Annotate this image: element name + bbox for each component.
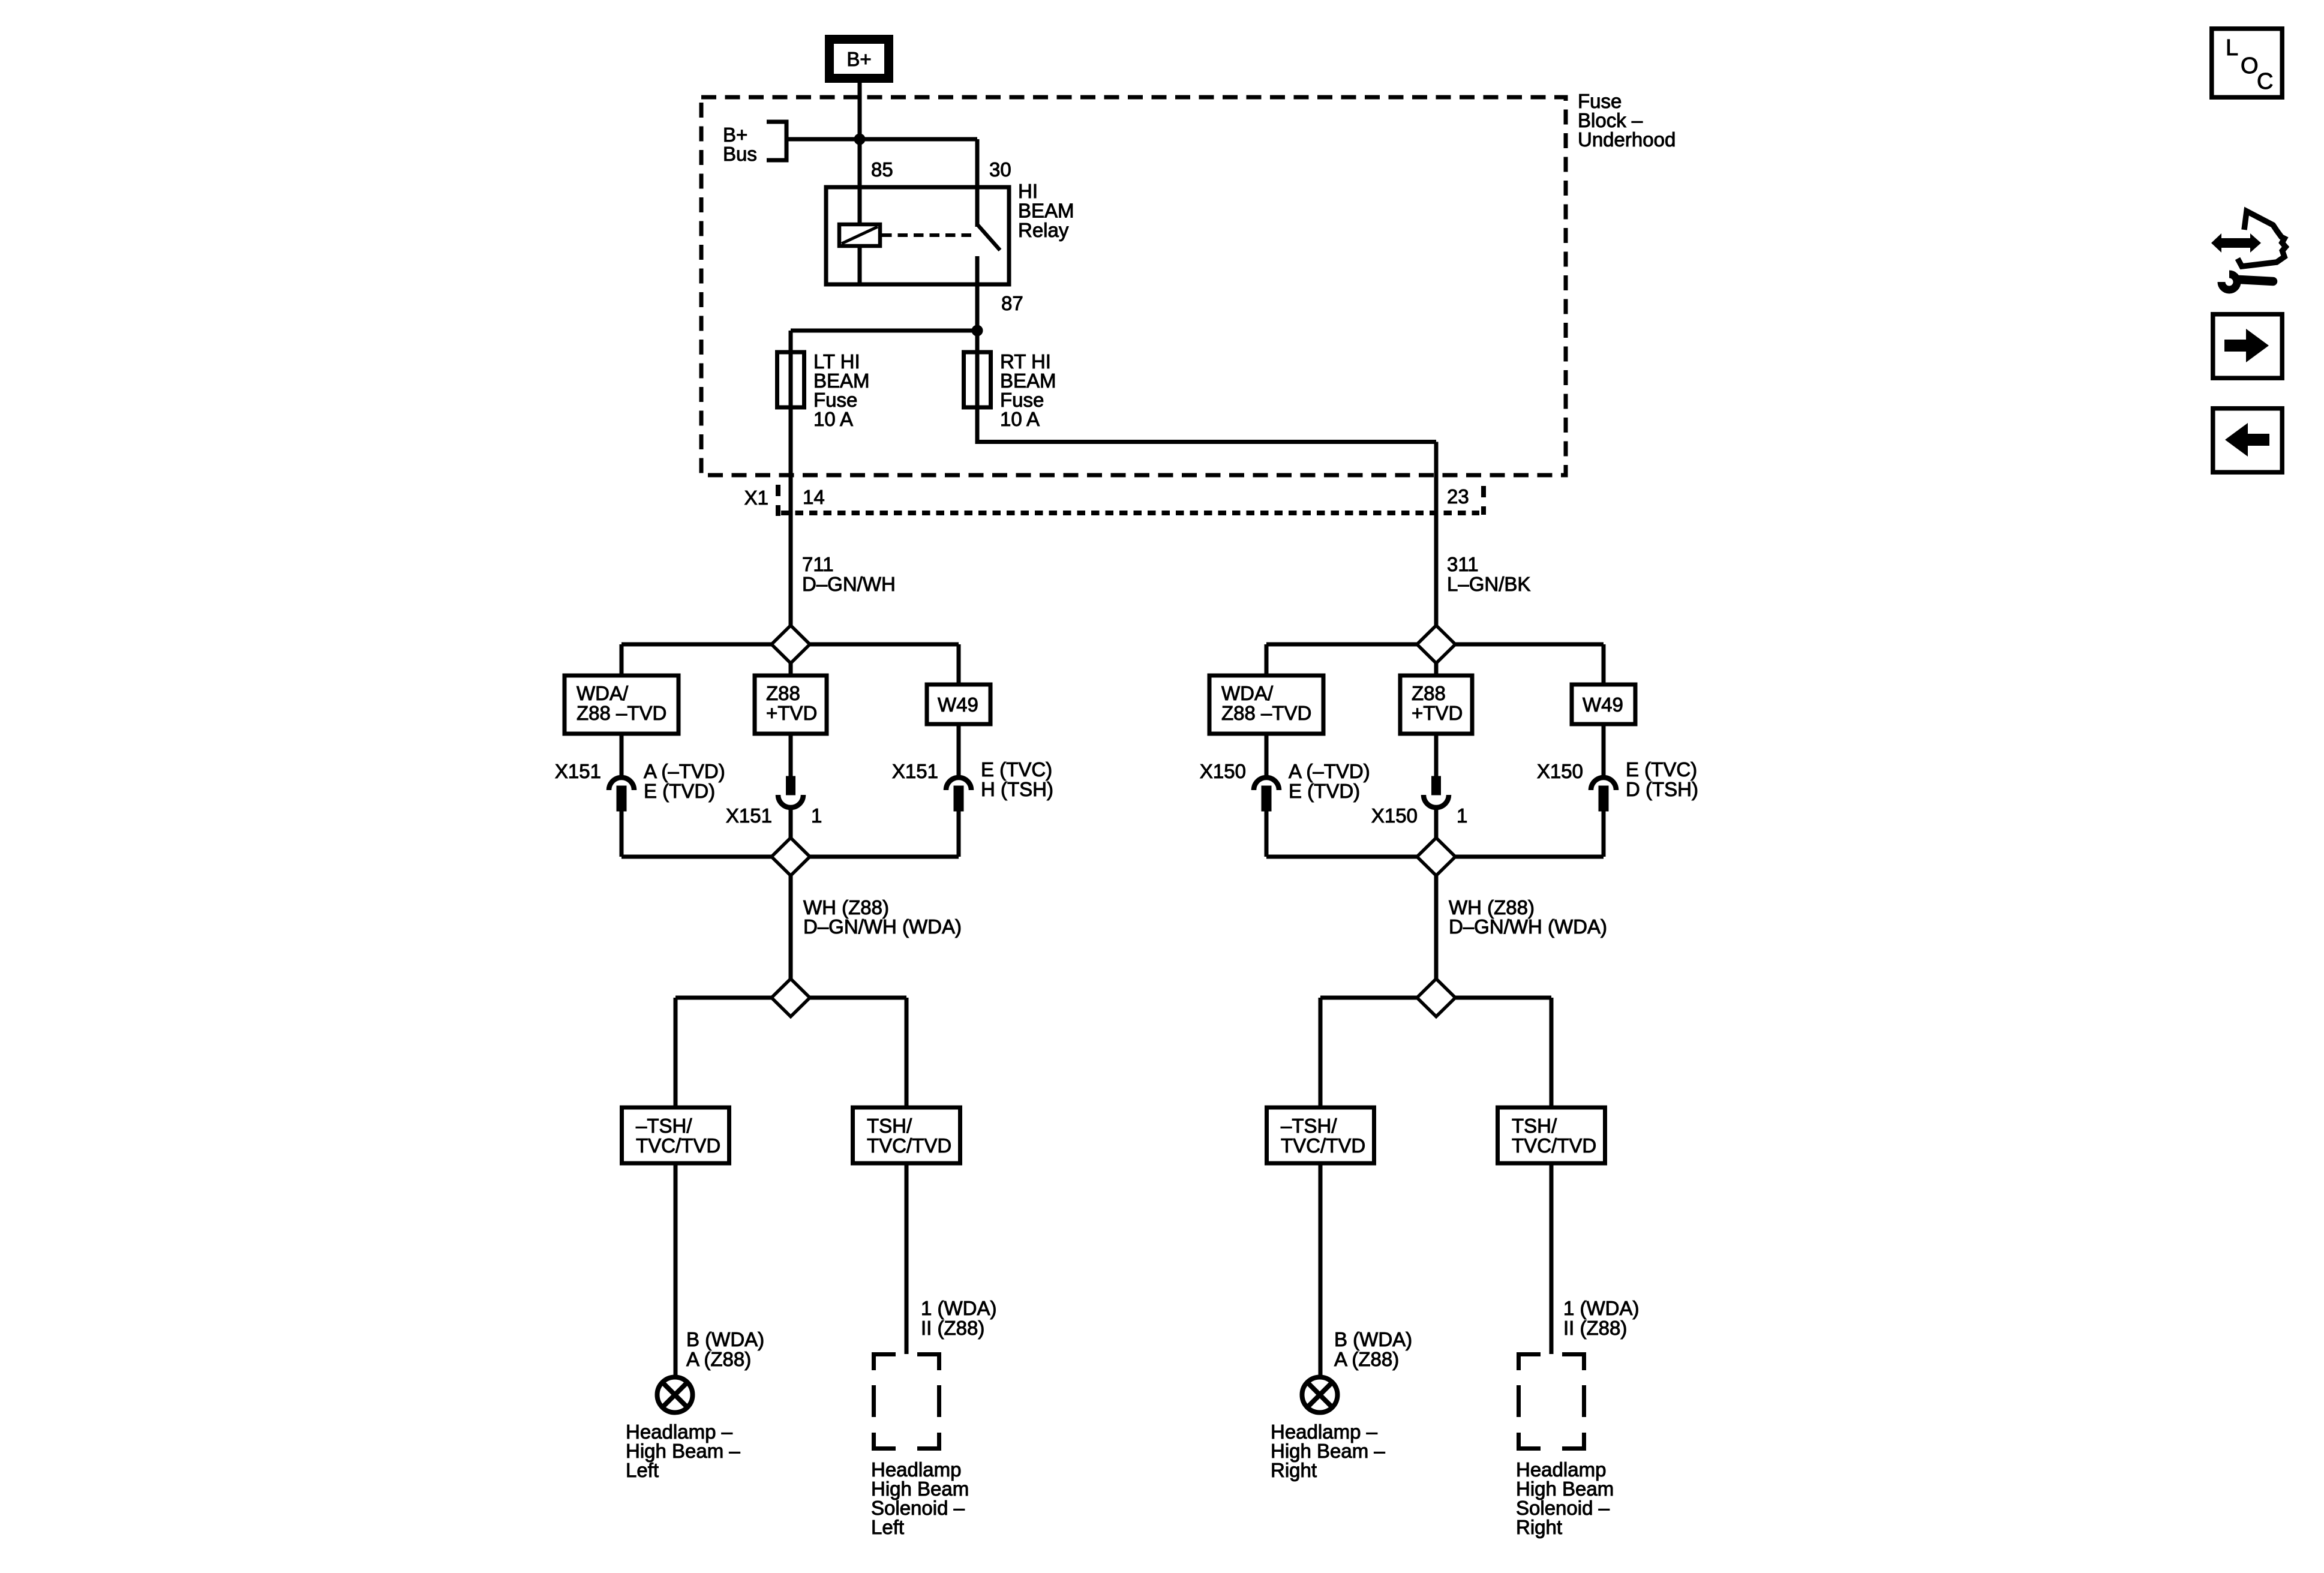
svg-text:TVC/TVD: TVC/TVD (1281, 1134, 1365, 1157)
svg-text:A (Z88): A (Z88) (686, 1348, 751, 1370)
svg-text:D–GN/WH (WDA): D–GN/WH (WDA) (1449, 915, 1607, 938)
svg-text:Z88 –TVD: Z88 –TVD (577, 702, 666, 724)
box W49 (left) (927, 685, 990, 724)
connector X1 right end tick (1481, 486, 1486, 515)
wire to headlamp bulb (left) (674, 1163, 678, 1377)
svg-text:E (TVD): E (TVD) (1289, 780, 1360, 802)
svg-text:Right: Right (1271, 1459, 1317, 1481)
RT HI BEAM fuse 10A (964, 350, 1056, 430)
splice S upper (left) (771, 626, 810, 664)
svg-text:D (TSH): D (TSH) (1626, 778, 1698, 800)
relay dashed actuator line (882, 233, 973, 237)
svg-text:TSH/: TSH/ (1512, 1115, 1557, 1137)
headlamp high beam solenoid dashed box (left) (872, 1352, 941, 1451)
svg-text:14: 14 (803, 486, 825, 508)
box TSH/TVC/TVD (left) (853, 1107, 960, 1163)
svg-text:BEAM: BEAM (1018, 200, 1074, 222)
svg-text:L–GN/BK: L–GN/BK (1447, 573, 1530, 595)
svg-text:–TSH/: –TSH/ (1281, 1115, 1337, 1137)
svg-text:1: 1 (811, 804, 822, 827)
wire splice to WDA box (left) (620, 644, 624, 676)
svg-text:1 (WDA): 1 (WDA) (921, 1297, 997, 1319)
svg-text:TSH/: TSH/ (867, 1115, 912, 1137)
svg-text:10 A: 10 A (1000, 408, 1040, 430)
svg-text:X150: X150 (1371, 804, 1418, 827)
wire lamp feed bus (left) (675, 996, 906, 1000)
wire splice to W49 box (left) (957, 644, 961, 685)
wire RT fuse down (975, 407, 980, 444)
forward arrow icon (2213, 314, 2282, 378)
wire to -TSH box (right) (1319, 998, 1323, 1107)
wire X151 E/H to lower bus (957, 811, 961, 857)
service/diagnostic icon (2211, 211, 2286, 290)
wire 87 feed horizontal (791, 329, 977, 333)
headlamp high beam bulb (right) (1302, 1377, 1338, 1413)
svg-text:Z88: Z88 (1412, 682, 1446, 704)
wire circuit 711 LT fuse through pin 14 to splice (789, 407, 793, 626)
svg-text:WDA/: WDA/ (1221, 682, 1274, 704)
svg-text:II (Z88): II (Z88) (921, 1317, 984, 1339)
wire to TSH box (right) (1550, 998, 1554, 1107)
LOC icon box (2212, 29, 2282, 97)
box WDA/Z88-TVD (right) (1209, 676, 1323, 734)
wire lamp feed bus (right) (1320, 996, 1551, 1000)
svg-text:85: 85 (871, 158, 893, 181)
connector X151 pins E/H (W49 branch) (946, 724, 971, 811)
svg-text:TVC/TVD: TVC/TVD (636, 1134, 720, 1157)
wire X150 E/D to lower bus (1602, 811, 1606, 857)
splice lamp feed (left) (771, 979, 810, 1017)
wire WH/D-GN-WH down (right) (1434, 876, 1439, 980)
wire lower splice bus (right) (1266, 855, 1604, 859)
svg-text:87: 87 (1001, 292, 1023, 314)
svg-text:B (WDA): B (WDA) (686, 1328, 764, 1350)
svg-text:Relay: Relay (1018, 219, 1069, 241)
svg-text:X151: X151 (555, 760, 601, 782)
svg-text:B (WDA): B (WDA) (1334, 1328, 1412, 1350)
wire down to LT fuse (789, 331, 793, 352)
LT HI BEAM fuse 10A (777, 350, 870, 430)
svg-text:E (TVD): E (TVD) (644, 780, 715, 802)
svg-text:1 (WDA): 1 (WDA) (1563, 1297, 1640, 1319)
svg-text:23: 23 (1447, 485, 1469, 508)
svg-text:HI: HI (1018, 180, 1038, 202)
box Z88 +TVD (left) (755, 676, 827, 734)
wire splice to W49 box (right) (1602, 644, 1606, 685)
box W49 (right) (1572, 685, 1635, 724)
svg-text:X1: X1 (744, 487, 768, 509)
svg-text:Bus: Bus (723, 143, 757, 165)
svg-text:Right: Right (1516, 1516, 1562, 1538)
svg-text:A (Z88): A (Z88) (1334, 1348, 1399, 1370)
junction 87 (972, 325, 983, 336)
wire to solenoid (left) (905, 1163, 909, 1354)
connector X151 pins A/E (WDA branch) (609, 734, 634, 811)
svg-text:A (–TVD): A (–TVD) (644, 760, 725, 782)
svg-text:Left: Left (626, 1459, 659, 1481)
splice S upper (right) (1417, 626, 1455, 664)
relay switch contact (977, 224, 1000, 250)
wire to TSH box (left) (905, 998, 909, 1107)
svg-text:X150: X150 (1200, 760, 1246, 782)
svg-text:Left: Left (871, 1516, 904, 1538)
svg-text:Z88: Z88 (766, 682, 800, 704)
svg-text:O: O (2241, 53, 2259, 79)
headlamp high beam solenoid dashed box (right) (1517, 1352, 1586, 1451)
box Z88 +TVD (right) (1400, 676, 1472, 734)
svg-text:A (–TVD): A (–TVD) (1289, 760, 1370, 782)
wire lower splice bus (left) (621, 855, 959, 859)
connector X1 left end tick (776, 485, 780, 516)
wire B+ bus feed horizontal (786, 137, 977, 142)
svg-text:X151: X151 (726, 804, 772, 827)
svg-text:TVC/TVD: TVC/TVD (1512, 1134, 1596, 1157)
svg-text:H (TSH): H (TSH) (981, 778, 1053, 800)
connector X1 dotted line (781, 511, 1479, 515)
connector X150 pins A/E (WDA branch) (1254, 734, 1279, 811)
svg-text:B+: B+ (846, 48, 871, 70)
wire to solenoid (right) (1550, 1163, 1554, 1354)
relay coil (839, 224, 880, 246)
splice lamp feed (right) (1417, 979, 1455, 1017)
wire to headlamp bulb (right) (1319, 1163, 1323, 1377)
svg-text:10 A: 10 A (813, 408, 853, 430)
svg-text:L: L (2226, 35, 2238, 61)
connector X151 pin 1 (Z88 branch) (778, 734, 803, 838)
svg-text:311: 311 (1447, 553, 1479, 575)
wire X151 A/E to lower bus (620, 811, 624, 857)
box TSH/TVC/TVD (right) (1498, 1107, 1605, 1163)
wire splice to Z88 box (left) (789, 664, 793, 676)
wire circuit 311 through pin 23 to splice (1434, 442, 1439, 626)
svg-text:+TVD: +TVD (766, 702, 817, 724)
svg-text:X151: X151 (892, 760, 938, 782)
svg-text:E (TVC): E (TVC) (1626, 758, 1697, 781)
svg-text:X150: X150 (1537, 760, 1583, 782)
wire X150 A/E to lower bus (1265, 811, 1269, 857)
wire upper splice bus (right) (1266, 643, 1604, 647)
svg-text:D–GN/WH: D–GN/WH (802, 573, 896, 595)
wire upper splice bus (left) (621, 643, 959, 647)
wire splice to WDA box (right) (1265, 644, 1269, 676)
HI BEAM relay box (826, 187, 1009, 284)
splice S lower (right) (1417, 838, 1455, 876)
svg-text:W49: W49 (1583, 694, 1623, 716)
svg-text:711: 711 (802, 553, 834, 575)
svg-text:D–GN/WH (WDA): D–GN/WH (WDA) (803, 915, 962, 938)
junction B+ (854, 134, 865, 145)
wire to -TSH box (left) (674, 998, 678, 1107)
box -TSH/TVC/TVD (left) (622, 1107, 729, 1163)
wire WH/D-GN-WH down (left) (789, 876, 793, 980)
svg-text:Z88 –TVD: Z88 –TVD (1221, 702, 1311, 724)
wire coil to relay bottom (858, 246, 862, 284)
headlamp high beam bulb (left) (657, 1377, 693, 1413)
svg-text:30: 30 (989, 158, 1011, 181)
wire pin 87 (975, 256, 980, 352)
svg-text:+TVD: +TVD (1412, 702, 1463, 724)
box WDA/Z88-TVD (left) (565, 676, 678, 734)
wire RT fuse horizontal (977, 440, 1436, 444)
connector X150 pins E/D (W49 branch) (1591, 724, 1616, 811)
connector X150 pin 1 (Z88 branch) (1424, 734, 1449, 838)
svg-text:II (Z88): II (Z88) (1563, 1317, 1627, 1339)
svg-text:E (TVC): E (TVC) (981, 758, 1052, 781)
splice S lower (left) (771, 838, 810, 876)
svg-text:Underhood: Underhood (1578, 128, 1676, 151)
svg-text:TVC/TVD: TVC/TVD (867, 1134, 951, 1157)
wire down to relay pin 30 (975, 139, 980, 227)
B+ power symbol (830, 40, 889, 79)
wire B+ down to relay coil pin 85 (858, 83, 862, 226)
svg-text:W49: W49 (938, 694, 978, 716)
back arrow icon (2213, 409, 2282, 472)
fuse block underhood dashed box (701, 97, 1566, 475)
svg-text:WDA/: WDA/ (577, 682, 629, 704)
svg-text:–TSH/: –TSH/ (636, 1115, 692, 1137)
wire splice to Z88 box (right) (1434, 664, 1439, 676)
svg-text:C: C (2257, 69, 2273, 94)
svg-text:1: 1 (1457, 804, 1467, 827)
box -TSH/TVC/TVD (right) (1267, 1107, 1374, 1163)
B+ Bus bracket (767, 122, 786, 160)
